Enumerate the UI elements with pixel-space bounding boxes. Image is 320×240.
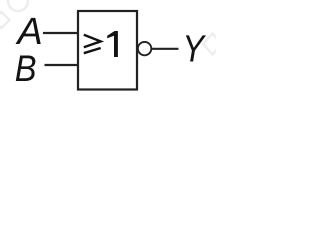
wire input B xyxy=(45,64,79,66)
OR gate U1 body xyxy=(78,11,137,90)
inversion bubble xyxy=(138,42,151,55)
watermark (decorative) xyxy=(0,0,222,55)
wire output Y xyxy=(152,48,179,50)
input label B xyxy=(16,56,36,81)
output label Y xyxy=(186,35,206,61)
input label A xyxy=(16,18,41,44)
gate function label ≥1 xyxy=(84,31,118,57)
wire input A xyxy=(43,32,78,34)
